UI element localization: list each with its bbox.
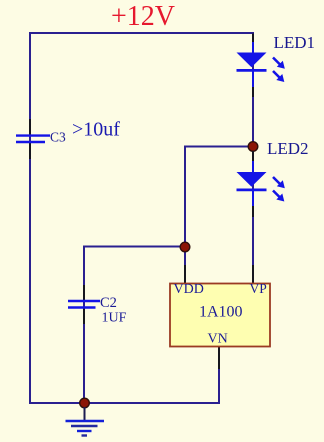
wire left vertical rail: [29, 32, 31, 404]
svg-text:VP: VP: [250, 281, 267, 296]
svg-text:1UF: 1UF: [102, 311, 127, 326]
wire VN pin down and left: [218, 347, 220, 403]
svg-text:VDD: VDD: [174, 282, 204, 297]
svg-text:LED2: LED2: [267, 139, 309, 158]
wire LED2 junction to middle branch: [185, 147, 254, 249]
node junction ground: [80, 398, 90, 408]
LED2 cathode stub (blue): [252, 191, 254, 207]
LED1 pin stub bottom (black): [252, 87, 254, 97]
LED2 anode stub (blue): [252, 161, 254, 173]
wire top horizontal from left rail to LED1: [30, 32, 254, 34]
sheet symbol U1 1A100: [170, 281, 270, 347]
LED1 anode stub (blue): [252, 42, 254, 53]
ground symbol: [66, 407, 105, 436]
wire VDD branch down: [184, 247, 186, 284]
pin stub C2 top (black): [83, 285, 85, 300]
node junction LED1/LED2: [248, 142, 258, 152]
pin stub C3 top (black): [29, 119, 31, 135]
capacitor C2: [68, 301, 100, 308]
svg-text:+12V: +12V: [111, 1, 175, 32]
wire right vertical LED branch: [252, 33, 254, 284]
wire C2 top branch: [84, 247, 186, 248]
svg-text:C3: C3: [50, 130, 66, 145]
svg-text:VN: VN: [208, 332, 228, 347]
LED2 pin stub bottom (black): [252, 206, 254, 217]
LED1 diode symbol: [237, 53, 267, 71]
pin stub VDD (black): [184, 265, 186, 284]
svg-text:C2: C2: [100, 295, 117, 311]
svg-text:>10uf: >10uf: [72, 119, 120, 141]
svg-text:1A100: 1A100: [199, 304, 243, 321]
wire C2 vertical: [83, 247, 85, 405]
LED1 cathode stub (blue): [252, 71, 254, 88]
pin stub VP (black): [252, 265, 254, 284]
LED1 emission arrows: [273, 58, 285, 83]
svg-text:LED1: LED1: [274, 33, 316, 52]
capacitor C3: [16, 136, 50, 142]
pin stub C3 bottom (black): [29, 143, 31, 159]
LED2 emission arrows: [273, 177, 285, 202]
LED2 diode symbol: [237, 172, 267, 190]
LED2 pin stub top (black): [252, 151, 254, 162]
wire bottom horizontal to VN: [29, 402, 220, 404]
node junction middle branch: [180, 242, 190, 252]
pin stub VN (black): [218, 347, 220, 369]
pin stub C2 bottom (black): [83, 309, 85, 325]
LED1 pin stub top (black): [252, 34, 254, 44]
